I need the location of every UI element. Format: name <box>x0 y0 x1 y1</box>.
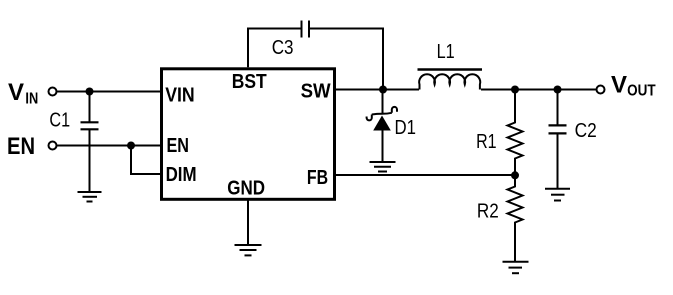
inductor L1 <box>418 70 483 90</box>
wire L1 to VOUT terminal <box>481 89 597 91</box>
svg-text:C2: C2 <box>575 120 597 142</box>
node VOUT terminal <box>597 86 605 94</box>
junction C2 node <box>554 86 562 94</box>
ground (below IC GND) <box>235 245 262 255</box>
junction SW node <box>379 86 387 94</box>
node EN terminal <box>49 142 57 150</box>
capacitor C3 <box>302 21 310 38</box>
ground (below D1) <box>370 162 396 172</box>
svg-text:C1: C1 <box>49 110 70 132</box>
svg-text:D1: D1 <box>395 117 417 139</box>
svg-text:SW: SW <box>301 81 331 103</box>
junction FB/R1/R2 <box>511 171 519 179</box>
resistor R1 <box>508 90 523 176</box>
wire BST pin to C3 <box>248 29 301 68</box>
svg-text:EN: EN <box>7 133 35 160</box>
svg-text:V: V <box>611 72 627 99</box>
svg-text:C3: C3 <box>272 37 294 59</box>
wire EN junction to DIM pin <box>131 146 161 175</box>
junction R1 node <box>511 86 519 94</box>
resistor R2 <box>508 175 523 262</box>
ground (below R2) <box>503 262 529 273</box>
svg-text:L1: L1 <box>437 41 455 63</box>
junction EN/DIM <box>127 142 135 150</box>
capacitor C1 <box>81 92 99 130</box>
svg-text:VIN: VIN <box>165 85 195 107</box>
svg-text:BST: BST <box>232 71 267 93</box>
svg-text:FB: FB <box>307 167 328 189</box>
svg-text:R1: R1 <box>476 131 497 153</box>
svg-text:R2: R2 <box>477 201 499 223</box>
svg-text:DIM: DIM <box>166 164 197 186</box>
wire FB pin to divider <box>336 174 515 176</box>
capacitor C2 <box>549 90 567 190</box>
svg-text:GND: GND <box>227 177 265 199</box>
diode D1 (Schottky) <box>367 90 397 163</box>
wire EN terminal to IC EN pin <box>57 145 162 147</box>
wire C3 to SW node <box>310 29 383 90</box>
svg-text:EN: EN <box>167 135 190 157</box>
ground (below C1) <box>78 192 102 202</box>
wire SW pin to L1 <box>336 89 419 91</box>
svg-text:OUT: OUT <box>627 82 656 99</box>
wire GND pin to ground <box>247 201 249 246</box>
node VIN terminal <box>49 88 57 96</box>
ground (below C2) <box>545 189 570 201</box>
junction VIN/C1 <box>86 88 94 96</box>
IC U1 body <box>162 69 335 200</box>
wire C1 to ground <box>89 129 91 192</box>
svg-text:IN: IN <box>25 91 38 108</box>
wire VIN terminal to IC VIN pin <box>57 91 162 93</box>
svg-text:V: V <box>8 79 24 106</box>
